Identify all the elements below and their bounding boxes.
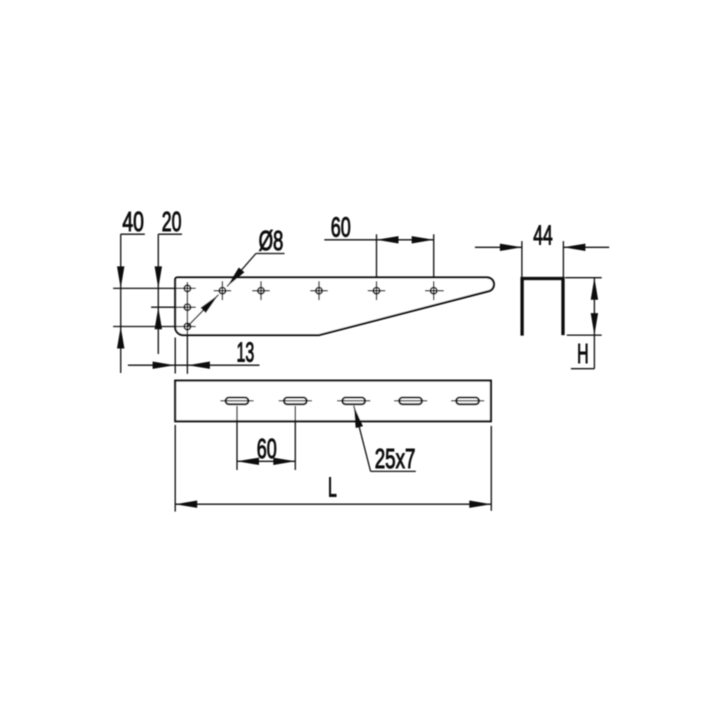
slot size leader 25x7 xyxy=(371,470,416,472)
slot S1 xyxy=(226,398,249,405)
hole B3 xyxy=(316,288,322,294)
svg-text:44: 44 xyxy=(533,219,552,251)
diameter leader Ø8 xyxy=(256,253,285,255)
hole B5 xyxy=(431,288,437,294)
svg-text:20: 20 xyxy=(162,205,182,237)
extension line top hole row y=288.4 xyxy=(113,287,196,289)
hole A3 (left column bottom) xyxy=(184,323,190,329)
svg-text:L: L xyxy=(328,471,337,503)
svg-text:13: 13 xyxy=(237,336,255,368)
hole B2 xyxy=(258,288,264,294)
dimension 44 xyxy=(521,241,523,277)
dimension 13 xyxy=(128,364,260,366)
svg-text:H: H xyxy=(577,337,589,369)
svg-text:25x7: 25x7 xyxy=(375,442,416,474)
hole B4 xyxy=(373,288,379,294)
extension line bottom hole row y=326.5 xyxy=(113,326,196,328)
bracket side view outline xyxy=(175,277,494,335)
hole B1 xyxy=(219,288,225,294)
channel cross-section xyxy=(522,279,563,336)
dimension 60 bottom xyxy=(236,406,238,470)
svg-text:40: 40 xyxy=(122,205,143,237)
slot S4 xyxy=(399,398,422,405)
dimension 20 leader and line xyxy=(158,233,182,235)
hole A2 (left column middle) xyxy=(184,304,190,310)
dimension L xyxy=(174,425,176,512)
extension line middle hole row y=307.2 xyxy=(151,306,196,308)
dimension 60 top: line and extension lines xyxy=(324,239,433,241)
svg-text:60: 60 xyxy=(257,432,277,464)
dimension 40 leader and line xyxy=(121,233,145,235)
slot S3 xyxy=(342,398,365,405)
slot S2 xyxy=(284,398,307,405)
svg-text:Ø8: Ø8 xyxy=(259,224,284,256)
hole A1 (left column top) xyxy=(184,285,190,291)
hole column centerline xyxy=(186,282,188,374)
svg-text:60: 60 xyxy=(331,210,351,242)
dimension H xyxy=(565,277,602,279)
base plate top view xyxy=(175,381,491,422)
slot S5 xyxy=(456,398,479,405)
